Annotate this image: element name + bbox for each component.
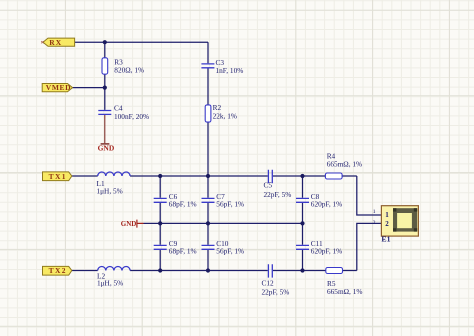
svg-text:820Ω, 1%: 820Ω, 1% [114,65,144,74]
inductor L1 [98,172,130,176]
wire TX2 row mid [130,270,268,272]
svg-text:2: 2 [373,220,376,226]
E1 pad corner marks [393,208,417,231]
wire column R3/C4 upper [104,42,106,110]
port TX2 [43,266,72,275]
svg-text:665mΩ, 1%: 665mΩ, 1% [327,160,362,169]
capacitor C5 (series) [268,170,272,183]
capacitor C3 [201,64,214,68]
resistor R3 [102,58,108,74]
svg-text:C12: C12 [262,279,275,288]
svg-text:E1: E1 [381,234,390,243]
svg-text:620pF, 1%: 620pF, 1% [311,200,342,209]
svg-text:TX2: TX2 [49,266,67,275]
svg-text:2: 2 [385,220,389,228]
capacitor C8 [296,198,309,202]
port TX1 [43,172,72,181]
svg-text:1nF, 10%: 1nF, 10% [216,66,244,75]
svg-text:GND: GND [98,144,115,153]
svg-text:68pF, 1%: 68pF, 1% [169,200,197,209]
junction TX2/C9 [158,268,162,272]
resistor R4 [325,173,342,179]
svg-text:620pF, 1%: 620pF, 1% [311,247,342,256]
svg-text:C5: C5 [264,180,273,189]
wire main column C10 bottom to TX2 row [207,250,209,271]
wire column C6/C9 [159,176,161,271]
svg-text:56pF, 1%: 56pF, 1% [216,200,244,209]
wire TX2 row left [72,270,98,272]
wire main column C7 bottom to C10 top [207,203,209,245]
power ground GND (net label on middle row) [121,220,144,228]
power ground GND (below C4) [101,115,110,144]
wire VMED to junction [73,87,105,89]
svg-text:1: 1 [385,211,389,219]
E1 pad center [397,213,412,228]
wire TX1 row mid [130,175,268,177]
capacitor C12 (series) [268,264,272,277]
wire right column up to E1 pin2 [357,223,382,270]
svg-text:GND: GND [121,220,137,228]
capacitor C6 [154,198,167,202]
svg-text:665mΩ, 1%: 665mΩ, 1% [327,287,362,296]
junction TX2/C10 [206,268,210,272]
wire TX1 row left [72,175,98,177]
wire main column C3 bottom to C7 top [207,68,209,197]
junction VMED/R3 [103,86,107,90]
wire TX1 row right of C5 [273,175,357,177]
connector E1 body [381,206,418,236]
port RX [43,38,75,47]
wire right column down to E1 pin1 [357,176,382,215]
wire main column C3 top [207,42,209,63]
junction TX1/C7 [206,174,210,178]
svg-text:22k, 1%: 22k, 1% [213,111,237,120]
capacitor C11 [296,245,309,249]
svg-text:1μH, 5%: 1μH, 5% [97,279,123,288]
junction TX1/C8 [300,174,304,178]
svg-text:22pF, 5%: 22pF, 5% [264,190,292,199]
resistor R2 [205,105,211,122]
svg-text:68pF, 1%: 68pF, 1% [169,247,197,256]
junction GND/C7 [206,221,210,225]
junction TX1/C6 [158,174,162,178]
capacitor C10 [202,245,215,249]
no-ERC marker at RX tip [41,41,43,43]
wire column C8/C11 [302,176,304,271]
svg-text:1: 1 [373,209,376,215]
svg-text:1μH, 5%: 1μH, 5% [97,186,123,195]
capacitor C4 [98,111,111,115]
inductor L2 [98,266,130,270]
capacitor C9 [154,245,167,249]
svg-text:56pF, 1%: 56pF, 1% [216,247,244,256]
resistor R5 [326,268,343,274]
wire RX row [75,41,208,43]
wire TX2 row right of C12 [273,270,357,272]
capacitor C7 [202,198,215,202]
svg-text:TX1: TX1 [49,172,67,181]
svg-text:VMED: VMED [46,83,71,92]
svg-text:100nF, 20%: 100nF, 20% [114,112,149,121]
junction TX2/C11 [300,268,304,272]
E1 pad ring [393,208,417,231]
wire GND row [144,222,303,224]
junction RX/R3 [103,40,107,44]
svg-text:22pF, 5%: 22pF, 5% [262,287,290,296]
junction GND/C6 [158,221,162,225]
port VMED [42,83,72,92]
svg-text:RX: RX [49,38,62,47]
junction GND/C8 [300,221,304,225]
